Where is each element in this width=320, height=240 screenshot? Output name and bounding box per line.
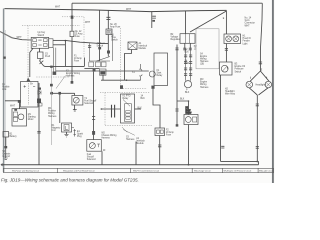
wire from key switch area down no.12 connector bbox=[71, 10, 73, 32]
fuse F2 box bbox=[155, 128, 165, 136]
junction dot bbox=[101, 108, 103, 110]
regulator feed from bus bbox=[185, 11, 187, 34]
connector No.12 bbox=[70, 31, 74, 36]
ignition key switch S1 bbox=[31, 37, 49, 48]
svg-text:Module: Module bbox=[139, 48, 147, 50]
inline connector on headlight feed bbox=[259, 62, 262, 64]
diode on battery right bbox=[38, 91, 41, 95]
wire connector block down bbox=[102, 75, 104, 80]
svg-text:Solenoid: Solenoid bbox=[84, 103, 94, 105]
svg-text:BLK: BLK bbox=[185, 92, 190, 94]
svg-text:Harness: Harness bbox=[48, 115, 57, 118]
fuel solenoid Y1 box bbox=[72, 96, 83, 106]
regulator to alternator wires bbox=[185, 43, 191, 48]
alternator leads bbox=[186, 49, 191, 81]
wire junction down to interlock bbox=[64, 40, 66, 66]
dashed harness boundary: dash panel top bbox=[22, 24, 80, 26]
connector blob on wire at dashed crossing bbox=[71, 16, 74, 19]
svg-text:Switch: Switch bbox=[38, 34, 45, 37]
connector square on battery-starter wire bbox=[38, 88, 41, 90]
wire start relay to fuse F2 bbox=[153, 89, 160, 128]
wire light box to oil switch bbox=[225, 44, 227, 63]
ground symbol bbox=[64, 134, 68, 137]
svg-text:10 Amp: 10 Amp bbox=[74, 57, 82, 60]
wire module to fuel solenoid chain bbox=[93, 72, 95, 140]
connector below start relay bbox=[151, 86, 154, 89]
svg-text:Wiring: Wiring bbox=[48, 112, 55, 115]
connector square on fuse chain bbox=[107, 51, 110, 54]
connector tick bbox=[4, 146, 7, 148]
svg-text:Switch: Switch bbox=[235, 70, 242, 73]
connector square on junction wire bbox=[98, 47, 101, 49]
connector on rail bbox=[50, 66, 53, 68]
wire down to bus bbox=[135, 142, 137, 165]
legend band bbox=[4, 168, 274, 172]
voltage regulator box bbox=[180, 34, 195, 44]
svg-text:Fuse: Fuse bbox=[75, 36, 81, 38]
svg-text:Meter: Meter bbox=[186, 112, 192, 115]
inline connector tick low bbox=[175, 109, 178, 111]
junction dot bbox=[256, 161, 258, 163]
connector bars on stub bbox=[152, 16, 156, 18]
svg-text:Headlight: Headlight bbox=[225, 90, 235, 93]
svg-text:Harness: Harness bbox=[66, 75, 75, 78]
inline connector bbox=[256, 104, 259, 106]
svg-text:Plug: Plug bbox=[77, 136, 82, 138]
oil pressure switch box bbox=[220, 62, 233, 75]
diagonal lead-in wire top left bbox=[0, 32, 12, 38]
svg-text:RED: RED bbox=[185, 63, 190, 65]
starter motor M1 box bbox=[12, 108, 27, 126]
svg-text:Switch: Switch bbox=[97, 44, 104, 47]
svg-text:Wiring: Wiring bbox=[200, 83, 207, 86]
arrow for harness label bbox=[56, 76, 66, 89]
headlight right lamp bbox=[265, 81, 272, 88]
connector blob on left rail bbox=[3, 57, 5, 59]
svg-text:Interlock: Interlock bbox=[136, 140, 145, 143]
second drop wire bbox=[112, 35, 114, 62]
svg-text:Harness: Harness bbox=[101, 137, 110, 140]
switch row wire bbox=[89, 60, 110, 62]
harness rail gray bbox=[51, 68, 53, 145]
wire fuse chain to switch bbox=[107, 35, 109, 57]
svg-text:Harness: Harness bbox=[200, 86, 209, 89]
junction blob bbox=[18, 100, 21, 103]
svg-text:BLK: BLK bbox=[185, 52, 190, 54]
battery internal dashed plate bbox=[28, 83, 30, 105]
svg-text:Harness: Harness bbox=[126, 138, 135, 141]
regulator output wire long bbox=[176, 45, 178, 126]
bus left arrow bbox=[1, 163, 3, 166]
svg-text:Spark: Spark bbox=[77, 133, 84, 136]
svg-text:Fender: Fender bbox=[243, 40, 250, 43]
start relay feed wire bbox=[56, 70, 149, 72]
svg-text:Positive: Positive bbox=[48, 110, 57, 113]
relay output wire bbox=[135, 108, 142, 110]
svg-text:Engine Wiring: Engine Wiring bbox=[66, 72, 81, 75]
wire solenoid to ground bus bbox=[101, 151, 103, 165]
wire junction to seat circuit bbox=[65, 40, 108, 43]
svg-text:Amp Fuse: Amp Fuse bbox=[110, 26, 121, 29]
svg-text:WHT: WHT bbox=[126, 9, 132, 11]
svg-text:Connector: Connector bbox=[245, 22, 256, 25]
svg-text:Chassis Wiring: Chassis Wiring bbox=[101, 134, 117, 137]
svg-text:Coil: Coil bbox=[52, 130, 56, 132]
inline connector low bbox=[256, 146, 259, 148]
inline connector bars on regulator wire bbox=[175, 48, 178, 50]
svg-text:Relay: Relay bbox=[123, 98, 130, 100]
dashed chassis harness box bbox=[100, 93, 152, 126]
wire to diode bbox=[39, 59, 41, 61]
battery cable connector wedge bbox=[27, 77, 31, 81]
ground collector wire bbox=[221, 161, 259, 164]
relay bars connector bbox=[112, 105, 115, 118]
svg-text:Pressure: Pressure bbox=[235, 68, 245, 71]
connector end blob bbox=[176, 124, 179, 126]
svg-text:Hood Or: Hood Or bbox=[243, 37, 252, 40]
svg-text:WHT: WHT bbox=[85, 22, 91, 24]
svg-text:Fig. JD19—Wiring schematic and: Fig. JD19—Wiring schematic and harness d… bbox=[1, 177, 139, 182]
wire key switch upper to junction bbox=[53, 39, 65, 41]
svg-text:Wire Assy: Wire Assy bbox=[225, 93, 236, 96]
fuse F1 15A body bbox=[106, 29, 112, 35]
svg-text:Ground: Ground bbox=[2, 155, 10, 158]
svg-text:Voltage: Voltage bbox=[171, 36, 179, 39]
connector end blob bbox=[71, 81, 74, 84]
dashed harness boundary upper bbox=[62, 17, 84, 57]
branch wire from key line bbox=[89, 43, 91, 61]
connector dot on stub bbox=[152, 20, 155, 22]
svg-text:WHT: WHT bbox=[245, 25, 251, 27]
headlight pin marks bbox=[251, 77, 267, 79]
wire jog joining buses bbox=[71, 3, 73, 9]
relay contact box 2 bbox=[96, 62, 101, 67]
svg-text:20 Amp: 20 Amp bbox=[166, 131, 174, 134]
junction dot bbox=[65, 40, 67, 42]
inline connector pair bbox=[139, 64, 142, 80]
wire oil switch to ground rail bbox=[220, 75, 222, 161]
inline connector bars bbox=[92, 117, 95, 120]
connector square bbox=[53, 72, 57, 75]
svg-text:15 Amp: 15 Amp bbox=[75, 33, 83, 36]
svg-text:Solenoid: Solenoid bbox=[87, 159, 97, 161]
junction dot bbox=[188, 100, 190, 102]
wire key switch lower bbox=[53, 44, 65, 46]
wire below connector bbox=[71, 37, 73, 81]
connector box below bbox=[38, 103, 42, 106]
svg-text:Light: Light bbox=[243, 42, 248, 45]
lead connector bars bbox=[184, 55, 192, 57]
battery plus mark bbox=[24, 85, 36, 87]
svg-text:W5-Engine Oil Pressure Circuit: W5-Engine Oil Pressure Circuit bbox=[224, 169, 252, 172]
module bottom connector 2 bbox=[100, 69, 107, 75]
wire below bbox=[5, 137, 7, 146]
magneto ignition coil box bbox=[62, 123, 72, 132]
svg-text:Switch: Switch bbox=[111, 39, 118, 42]
relay contact box 3 bbox=[102, 62, 107, 67]
battery box B1 bbox=[21, 82, 39, 108]
dashed harness left bbox=[27, 25, 29, 79]
headlight diamond wires bbox=[249, 71, 269, 95]
interlock harness wire bbox=[50, 92, 75, 94]
svg-text:WHT: WHT bbox=[55, 7, 61, 9]
svg-text:Interlock: Interlock bbox=[139, 45, 148, 48]
connector square on battery wire bbox=[37, 99, 41, 104]
right main vertical wire to headlights bbox=[260, 3, 262, 71]
wire hourmeter to bus bbox=[188, 125, 190, 165]
wire down to magneto bbox=[59, 93, 61, 123]
svg-text:W4-Charge Circuit: W4-Charge Circuit bbox=[194, 169, 211, 172]
hour meter box bbox=[184, 115, 198, 125]
connector bars bbox=[183, 48, 192, 50]
top bus wire lower bbox=[5, 9, 227, 12]
short connector stub wire bbox=[151, 12, 153, 28]
fuse feed vertical bbox=[107, 11, 109, 30]
headlight left lamp bbox=[246, 81, 253, 88]
wire diode to interlock line bbox=[43, 65, 44, 68]
wire left rail to starter motor bbox=[5, 101, 20, 109]
diode arrow symbol bbox=[39, 61, 43, 66]
main ground bus bbox=[3, 164, 259, 166]
svg-text:WHT: WHT bbox=[10, 106, 16, 108]
svg-text:WHT: WHT bbox=[17, 37, 23, 39]
module bottom connector 1 bbox=[93, 69, 96, 72]
dashed harness segment bbox=[36, 76, 70, 78]
battery B1 small box lower left bbox=[3, 132, 9, 138]
svg-text:Starting: Starting bbox=[28, 116, 37, 119]
svg-text:W1-Power and Starting Circuit: W1-Power and Starting Circuit bbox=[12, 169, 39, 172]
pto relay feed wire bbox=[101, 108, 121, 110]
fuel shutoff solenoid lower box bbox=[87, 140, 102, 152]
wire bus down to interlock junction bbox=[99, 11, 101, 62]
svg-text:Headlights: Headlights bbox=[256, 83, 268, 86]
arrow to dashed box bbox=[122, 127, 127, 132]
svg-text:Wiring: Wiring bbox=[200, 58, 207, 61]
svg-text:Motor: Motor bbox=[28, 118, 34, 121]
relay contact box 1 bbox=[89, 62, 94, 67]
svg-text:Fuse: Fuse bbox=[74, 61, 80, 63]
diagonal wire regulator to light circuit bbox=[190, 11, 226, 32]
ground stub bbox=[4, 148, 8, 159]
inline connector bars on fuse feed bbox=[106, 17, 110, 19]
svg-text:(18): (18) bbox=[200, 64, 204, 66]
key switch connector block bbox=[49, 39, 53, 48]
wire from X box stepping down bbox=[125, 50, 132, 81]
junction dot bbox=[126, 79, 128, 81]
wire from key switch down to push button bbox=[39, 48, 41, 52]
wire battery to starter relay vertical bbox=[38, 83, 40, 165]
svg-text:Push: Push bbox=[45, 56, 51, 58]
flywheel alternator G1 bbox=[184, 81, 191, 88]
wire fuse F2 to bus bbox=[159, 136, 161, 165]
inline connector tick bbox=[37, 132, 40, 133]
engine harness boundary box bbox=[196, 29, 219, 69]
svg-text:Regulator: Regulator bbox=[171, 38, 181, 41]
connector tick bbox=[158, 145, 161, 147]
wire from key switch to battery bbox=[30, 48, 33, 77]
wire magneto to ground bbox=[66, 132, 68, 134]
key switch double wire down bbox=[54, 48, 56, 72]
svg-text:Harness: Harness bbox=[200, 60, 209, 63]
svg-text:BLK: BLK bbox=[180, 98, 185, 100]
svg-text:Shutoff: Shutoff bbox=[87, 155, 94, 158]
start relay box K1 bbox=[149, 53, 167, 86]
svg-text:Fuse: Fuse bbox=[166, 135, 172, 137]
left page margin line bbox=[3, 9, 5, 173]
light circuit drop wire bbox=[225, 11, 227, 35]
headlight ground wire bbox=[256, 95, 258, 162]
svg-text:BLK: BLK bbox=[138, 108, 143, 110]
connector squares bbox=[50, 92, 53, 95]
dashed harness right of module bbox=[121, 28, 148, 89]
svg-text:W3-PTO and Interlock Circuit: W3-PTO and Interlock Circuit bbox=[133, 169, 159, 172]
connector bars on branch bbox=[88, 46, 91, 48]
wire into key switch bbox=[12, 38, 31, 40]
module lower wire bbox=[84, 68, 99, 70]
switch blade diagonal bbox=[97, 57, 111, 62]
spark plug symbol bbox=[72, 128, 77, 137]
PTO relay K1 box bbox=[121, 94, 135, 123]
connector tick bbox=[221, 146, 224, 148]
svg-text:W6-Light Circuit: W6-Light Circuit bbox=[259, 169, 274, 172]
pto relay feed horizontal bbox=[101, 79, 141, 81]
svg-text:Relay: Relay bbox=[157, 75, 164, 77]
push button switch bbox=[38, 52, 44, 59]
svg-text:Magneto: Magneto bbox=[52, 127, 62, 130]
inline connector bbox=[225, 48, 228, 50]
svg-text:Hour: Hour bbox=[186, 109, 191, 112]
connector square on dashed rail bbox=[120, 85, 123, 89]
wire solenoid down bbox=[74, 105, 76, 110]
top bus wire upper bbox=[72, 2, 262, 4]
svg-text:BLK: BLK bbox=[141, 98, 146, 100]
svg-text:Battery: Battery bbox=[10, 135, 18, 138]
arrow to module bbox=[123, 130, 135, 136]
wire riser at module left bbox=[83, 58, 85, 67]
interlock wire horizontal bbox=[45, 65, 85, 67]
right page edge line bbox=[272, 0, 274, 183]
svg-text:Module: Module bbox=[136, 143, 144, 145]
svg-text:Fuel Shutoff: Fuel Shutoff bbox=[84, 100, 96, 103]
svg-text:A2 Seat: A2 Seat bbox=[97, 42, 105, 45]
connector square bbox=[92, 131, 95, 135]
ground blob bbox=[73, 110, 77, 111]
svg-text:W2-Ignition and Fuel Shutoff C: W2-Ignition and Fuel Shutoff Circuit bbox=[63, 169, 95, 172]
safety switch X box bbox=[128, 42, 137, 50]
svg-text:Start: Start bbox=[157, 72, 162, 75]
hood light box with two lamps bbox=[224, 34, 241, 44]
wire solenoid feed bbox=[74, 93, 76, 95]
wire regulator to hourmeter bbox=[177, 101, 189, 115]
connector on rail 2 bbox=[50, 84, 53, 87]
